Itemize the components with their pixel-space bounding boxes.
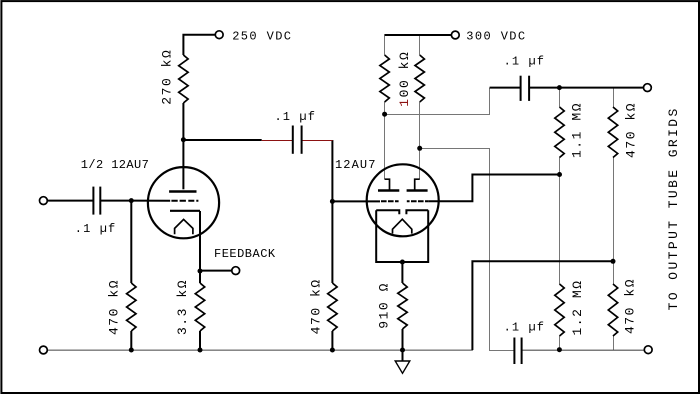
svg-text:1/2 12AU7: 1/2 12AU7: [81, 158, 149, 172]
svg-text:1.1 MΩ: 1.1 MΩ: [570, 102, 585, 158]
svg-text:TO OUTPUT TUBE GRIDS: TO OUTPUT TUBE GRIDS: [666, 106, 681, 310]
svg-text:12AU7: 12AU7: [335, 158, 377, 172]
svg-text:3.3 kΩ: 3.3 kΩ: [175, 279, 190, 335]
svg-text:270 kΩ: 270 kΩ: [159, 49, 174, 105]
svg-text:1.2 MΩ: 1.2 MΩ: [570, 279, 585, 335]
svg-text:910 Ω: 910 Ω: [376, 282, 391, 329]
svg-text:.1 µf: .1 µf: [504, 320, 546, 334]
svg-text:FEEDBACK: FEEDBACK: [214, 247, 276, 261]
svg-text:300 VDC: 300 VDC: [466, 29, 526, 43]
svg-text:470 kΩ: 470 kΩ: [106, 279, 121, 335]
svg-text:100 kΩ: 100 kΩ: [397, 51, 412, 107]
svg-text:.1 µf: .1 µf: [275, 110, 317, 124]
svg-text:470 kΩ: 470 kΩ: [624, 102, 639, 158]
svg-text:470 kΩ: 470 kΩ: [308, 278, 323, 334]
svg-text:470 kΩ: 470 kΩ: [623, 278, 638, 334]
svg-text:.1 µf: .1 µf: [75, 222, 117, 236]
svg-text:250 VDC: 250 VDC: [232, 29, 292, 43]
svg-text:.1 µf: .1 µf: [504, 55, 546, 69]
